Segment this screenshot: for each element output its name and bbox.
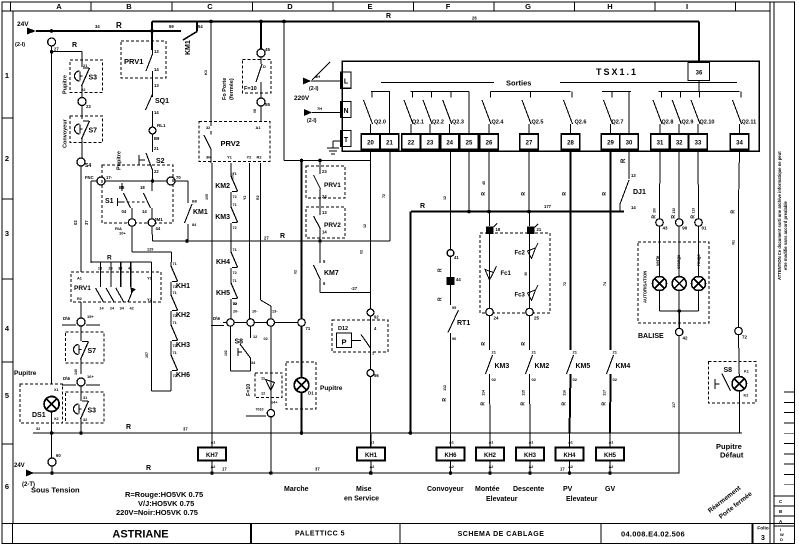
svg-text:21: 21 [613,350,618,355]
svg-text:KM1: KM1 [185,40,192,55]
svg-text:Mise: Mise [356,486,372,493]
svg-text:14: 14 [631,205,636,210]
svg-text:72: 72 [233,271,237,275]
svg-text:28: 28 [567,141,574,147]
svg-text:10-: 10- [252,310,258,314]
svg-text:132: 132 [672,208,676,214]
svg-text:45: 45 [482,181,486,185]
svg-text:R: R [386,13,391,20]
svg-text:R: R [521,402,527,406]
svg-text:41: 41 [454,255,459,260]
svg-text:Y1: Y1 [147,276,153,281]
svg-text:21: 21 [492,350,497,355]
svg-text:20\: 20\ [653,208,657,213]
svg-text:Pupitre: Pupitre [63,75,69,94]
svg-text:PRV2: PRV2 [221,139,240,148]
svg-text:R2: R2 [256,195,260,200]
svg-text:KH2: KH2 [176,312,190,319]
svg-text:F: F [446,2,451,11]
svg-text:08: 08 [253,109,257,113]
svg-text:27: 27 [54,47,59,52]
svg-text:3M: 3M [206,155,212,160]
svg-text:7010: 7010 [256,408,264,412]
svg-text:R: R [481,192,487,196]
svg-text:37: 37 [183,427,188,432]
svg-text:14+: 14+ [271,401,278,405]
svg-text:Q2.4: Q2.4 [492,120,505,126]
svg-text:R: R [621,158,627,163]
svg-text:30: 30 [626,141,633,147]
svg-text:Folio: Folio [757,526,769,532]
svg-text:32: 32 [206,126,210,130]
svg-text:A1: A1 [449,441,454,445]
svg-text:02: 02 [360,250,364,254]
svg-text:KM3: KM3 [215,214,230,221]
svg-text:A2: A2 [568,465,573,469]
svg-text:R: R [691,215,697,219]
svg-text:72: 72 [173,285,177,289]
svg-text:SQ1: SQ1 [155,98,169,105]
svg-text:102: 102 [224,350,228,356]
svg-text:R: R [481,402,487,406]
svg-text:44: 44 [156,226,161,231]
svg-text:27: 27 [526,141,533,147]
svg-text:DJ1: DJ1 [633,189,646,196]
svg-text:A1: A1 [568,441,573,445]
svg-text:29: 29 [607,141,614,147]
svg-text:3: 3 [5,229,9,238]
svg-text:02: 02 [492,377,497,382]
svg-text:3: 3 [761,535,765,542]
svg-text:A1: A1 [77,277,82,281]
svg-text:A1: A1 [529,441,534,445]
svg-text:(2-I): (2-I) [15,42,25,48]
svg-text:G: G [525,2,531,11]
svg-text:24V: 24V [17,21,29,28]
svg-text:K2: K2 [744,394,749,398]
svg-text:13: 13 [154,83,159,88]
svg-text:R: R [521,342,527,346]
svg-text:42: 42 [129,307,133,311]
svg-text:KH6: KH6 [176,372,190,379]
svg-text:56: 56 [374,373,379,378]
svg-text:5: 5 [5,391,9,400]
svg-text:12: 12 [443,196,447,200]
svg-text:04.008.E4.02.506: 04.008.E4.02.506 [621,530,685,539]
svg-text:KM1: KM1 [193,209,208,216]
svg-text:A2: A2 [370,465,375,469]
svg-text:72: 72 [233,195,237,199]
svg-text:59: 59 [169,24,174,29]
svg-text:R: R [602,192,608,196]
svg-text:42: 42 [683,336,689,341]
svg-text:117: 117 [603,390,607,396]
svg-text:Elevateur: Elevateur [486,496,518,503]
svg-text:RL1: RL1 [157,123,166,128]
svg-text:D: D [287,2,293,11]
svg-text:TSX1.1: TSX1.1 [596,67,638,77]
svg-text:31: 31 [657,141,664,147]
svg-text:14: 14 [322,230,327,235]
svg-text:X2: X2 [54,417,59,421]
svg-text:95: 95 [452,306,456,310]
svg-text:32: 32 [83,418,87,422]
svg-text:24: 24 [322,194,327,199]
svg-text:FNC: FNC [85,175,94,180]
svg-text:220V: 220V [294,95,310,102]
svg-text:Y2: Y2 [243,196,247,200]
svg-text:17: 17 [222,467,227,472]
svg-text:37: 37 [315,467,320,472]
svg-text:23: 23 [427,141,434,147]
svg-text:(fermée): (fermée) [229,78,235,100]
svg-text:KH5: KH5 [216,290,230,297]
svg-text:A: A [56,2,62,11]
svg-text:116: 116 [563,390,567,396]
svg-text:18: 18 [140,185,145,190]
svg-text:P: P [341,338,346,347]
svg-text:Sorties: Sorties [506,79,531,88]
svg-text:Q2.3: Q2.3 [452,120,464,126]
svg-text:60: 60 [56,453,61,458]
svg-text:16+: 16+ [87,374,94,379]
svg-text:72: 72 [563,282,567,286]
svg-text:32: 32 [36,427,40,431]
svg-text:F=10: F=10 [246,384,252,396]
svg-text:A1: A1 [489,441,494,445]
svg-text:KM5: KM5 [576,363,591,370]
svg-text:B9: B9 [154,136,160,141]
svg-text:32: 32 [676,141,683,147]
svg-text:PALETTICC 5: PALETTICC 5 [295,531,345,538]
svg-text:22: 22 [408,141,415,147]
svg-text:112: 112 [443,385,447,391]
svg-text:21: 21 [386,141,393,147]
svg-text:S7: S7 [88,348,97,355]
svg-text:KH5: KH5 [604,453,617,459]
svg-text:R: R [146,465,151,472]
svg-text:R: R [731,210,737,214]
svg-text:45: 45 [265,47,271,52]
svg-text:Fo Porte: Fo Porte [222,78,228,100]
svg-text:54: 54 [198,24,203,29]
svg-text:KH1: KH1 [176,283,190,290]
svg-text:20-: 20- [233,310,239,314]
svg-text:Fc1: Fc1 [501,271,512,277]
svg-text:Pupitre: Pupitre [117,151,123,170]
svg-text:33: 33 [118,267,122,271]
svg-text:PRV1: PRV1 [324,182,341,189]
svg-text:D12: D12 [338,326,348,332]
svg-text:157: 157 [145,352,149,358]
svg-text:H: H [607,2,612,11]
svg-text:Q2.7: Q2.7 [612,120,624,126]
svg-text:N: N [343,108,348,115]
svg-text:115: 115 [522,390,526,396]
svg-text:Elevateur: Elevateur [566,496,598,503]
svg-text:ASTRIANE: ASTRIANE [112,529,168,541]
svg-text:R: R [438,297,444,301]
svg-text:D: D [780,537,783,542]
svg-text:11: 11 [261,377,265,381]
svg-text:13: 13 [322,210,327,215]
svg-text:R: R [116,21,122,30]
svg-text:02: 02 [532,377,537,382]
svg-text:117: 117 [672,402,676,408]
svg-text:S1: S1 [105,198,114,205]
svg-text:Convoyeur: Convoyeur [63,118,69,148]
svg-text:A2: A2 [211,465,216,469]
svg-text:R2: R2 [257,155,263,160]
svg-text:72: 72 [173,344,177,348]
svg-text:Sous Tension: Sous Tension [31,486,80,495]
svg-text:3H: 3H [315,74,320,79]
svg-text:140: 140 [74,369,78,375]
svg-text:Q2.8: Q2.8 [662,120,674,126]
svg-text:Fc2: Fc2 [515,251,526,257]
svg-text:52: 52 [233,302,237,306]
svg-text:24V: 24V [14,463,25,469]
svg-text:A1: A1 [211,441,216,445]
svg-text:34: 34 [95,24,100,29]
svg-text:Q2.1: Q2.1 [412,120,424,126]
svg-text:PV: PV [563,486,573,493]
svg-text:R=Rouge:HO5VK 0.75: R=Rouge:HO5VK 0.75 [125,490,203,499]
svg-text:13: 13 [154,49,159,54]
svg-text:E: E [367,2,372,11]
svg-text:34: 34 [736,141,743,147]
svg-text:33: 33 [695,141,702,147]
svg-text:PRV2: PRV2 [324,222,341,229]
svg-text:21: 21 [154,146,159,151]
svg-text:KH4: KH4 [216,259,230,266]
svg-text:17: 17 [560,467,565,472]
svg-text:S8: S8 [724,367,733,374]
svg-text:ATTENTION Ce document sorti un: ATTENTION Ce document sorti une archive … [777,151,782,280]
svg-text:43: 43 [663,226,669,231]
svg-text:Défaut: Défaut [720,451,744,460]
svg-text:Fc3: Fc3 [515,293,526,299]
svg-text:en Service: en Service [344,496,379,503]
svg-text:B8: B8 [192,200,197,204]
svg-text:13-: 13- [272,310,278,314]
svg-text:55: 55 [265,102,271,107]
svg-text:1: 1 [372,352,374,356]
svg-text:72: 72 [233,226,237,230]
svg-text:A1: A1 [256,125,262,130]
svg-text:23: 23 [322,169,327,174]
svg-text:I: I [686,2,688,11]
svg-text:D\6: D\6 [63,376,71,381]
svg-text:Convoyeur: Convoyeur [427,486,464,493]
svg-text:15+: 15+ [87,314,94,319]
svg-text:21: 21 [537,227,542,232]
svg-text:71: 71 [233,203,237,207]
svg-text:KM4: KM4 [616,363,631,370]
svg-text:K1: K1 [203,69,208,75]
svg-text:105: 105 [205,194,209,200]
svg-text:72: 72 [382,194,386,198]
svg-text:R2: R2 [77,297,82,301]
svg-text:31: 31 [83,396,87,400]
svg-text:KH1: KH1 [365,453,378,459]
svg-text:R: R [481,342,487,346]
svg-text:25: 25 [534,316,540,321]
svg-text:114: 114 [482,390,486,396]
svg-text:Marche: Marche [284,486,309,493]
svg-text:72: 72 [742,335,748,340]
svg-text:KH4: KH4 [563,453,576,459]
svg-text:01: 01 [702,226,708,231]
svg-text:GV: GV [605,486,615,493]
svg-text:26: 26 [472,16,477,21]
svg-text:02: 02 [573,377,578,382]
svg-text:KH2: KH2 [484,453,497,459]
svg-text:14: 14 [154,67,159,72]
svg-text:177: 177 [544,204,552,209]
svg-text:Descente: Descente [513,486,544,493]
svg-text:90: 90 [682,226,688,231]
svg-text:A2: A2 [529,465,534,469]
svg-text:Q2.2: Q2.2 [432,120,444,126]
svg-text:Y2: Y2 [147,297,153,302]
svg-text:17-: 17- [106,175,113,180]
svg-text:72: 72 [173,374,177,378]
svg-text:Q2.9: Q2.9 [682,120,694,126]
svg-text:71: 71 [173,321,177,325]
svg-text:R: R [521,192,527,196]
svg-text:S7: S7 [89,128,98,135]
svg-text:37: 37 [84,220,89,225]
svg-text:R: R [442,398,448,402]
svg-text:KM3: KM3 [495,363,510,370]
svg-text:25: 25 [466,141,473,147]
svg-text:24: 24 [446,141,453,147]
svg-text:129: 129 [147,248,153,252]
svg-text:R: R [72,42,77,49]
svg-text:JM1: JM1 [154,217,163,222]
svg-text:S8: S8 [235,339,244,346]
svg-text:R: R [126,424,131,431]
svg-text:R: R [420,203,425,210]
svg-text:BALISE: BALISE [638,333,664,340]
svg-text:23: 23 [108,267,112,271]
svg-text:KH6: KH6 [444,453,457,459]
svg-text:R: R [438,268,444,272]
svg-text:R: R [652,215,658,219]
svg-text:74: 74 [603,282,607,286]
svg-text:Q2.5: Q2.5 [532,120,544,126]
svg-text:-27: -27 [351,286,358,291]
svg-text:D1: D1 [308,391,314,396]
svg-text:D: D [263,65,266,69]
svg-text:N1: N1 [732,240,736,245]
svg-text:PRV1: PRV1 [74,285,91,292]
svg-text:T: T [344,137,349,144]
svg-text:etre modifie sans accord preal: etre modifie sans accord prealable [783,200,788,270]
svg-text:F=10: F=10 [244,86,257,92]
svg-text:R: R [671,215,677,219]
svg-text:21: 21 [532,350,537,355]
svg-text:96: 96 [452,337,456,341]
svg-text:Q2.0: Q2.0 [374,120,386,126]
svg-text:S3: S3 [89,75,98,82]
svg-text:22: 22 [154,169,159,174]
svg-text:SCHEMA DE CABLAGE: SCHEMA DE CABLAGE [458,531,545,538]
svg-text:12: 12 [261,392,265,396]
svg-text:23: 23 [86,104,91,109]
svg-text:18: 18 [496,227,501,232]
svg-text:21: 21 [573,350,578,355]
svg-text:KH3: KH3 [176,342,190,349]
svg-text:30: 30 [524,272,528,276]
svg-text:S4: S4 [85,163,91,169]
svg-text:44: 44 [456,277,461,282]
svg-text:70: 70 [176,175,181,180]
svg-text:20: 20 [367,141,374,147]
svg-text:A1: A1 [609,441,614,445]
svg-text:71: 71 [233,248,237,252]
svg-text:A2: A2 [489,465,494,469]
svg-text:36: 36 [696,71,703,77]
svg-text:K1: K1 [744,370,749,374]
svg-text:113: 113 [692,208,696,214]
svg-text:Y1: Y1 [227,155,233,160]
svg-text:Y2: Y2 [247,155,253,160]
svg-text:72: 72 [173,314,177,318]
svg-text:2: 2 [5,154,9,163]
svg-text:S2: S2 [156,158,165,165]
svg-text:02: 02 [73,220,78,225]
svg-text:rouge: rouge [696,253,701,266]
svg-text:71: 71 [306,326,311,331]
svg-text:92: 92 [374,315,379,320]
svg-text:KM2: KM2 [535,363,550,370]
svg-text:13: 13 [98,267,102,271]
svg-text:Q2.10: Q2.10 [700,120,715,126]
svg-text:12: 12 [253,335,257,339]
svg-text:71: 71 [173,262,177,266]
svg-text:PRV1: PRV1 [124,57,143,66]
svg-text:L: L [344,79,349,86]
svg-text:R: R [280,233,285,240]
svg-text:Pupitre: Pupitre [320,385,343,392]
svg-text:S3: S3 [88,408,97,415]
svg-text:71: 71 [233,279,237,283]
svg-text:14: 14 [154,110,159,115]
svg-text:220V=Noir:HO5VK 0.75: 220V=Noir:HO5VK 0.75 [116,508,198,517]
svg-text:A1: A1 [370,441,375,445]
svg-text:13: 13 [631,173,636,178]
svg-text:verte: verte [655,255,660,266]
svg-text:02: 02 [294,270,298,274]
svg-text:V/J:HO5VK 0.75: V/J:HO5VK 0.75 [138,499,194,508]
svg-text:(2-I): (2-I) [309,86,319,92]
svg-text:KM7: KM7 [324,270,339,277]
svg-text:A2: A2 [449,465,454,469]
svg-text:26: 26 [486,141,493,147]
svg-text:02: 02 [264,337,268,341]
svg-text:Pupitre: Pupitre [14,370,37,377]
svg-text:C: C [207,2,213,11]
svg-text:D\6: D\6 [213,316,221,321]
svg-text:71: 71 [173,291,177,295]
svg-text:B: B [126,2,132,11]
svg-text:10+: 10+ [119,231,126,236]
svg-text:D\6: D\6 [63,316,71,321]
svg-text:AUTORISATION: AUTORISATION [643,271,648,303]
svg-text:Montée: Montée [475,486,500,493]
